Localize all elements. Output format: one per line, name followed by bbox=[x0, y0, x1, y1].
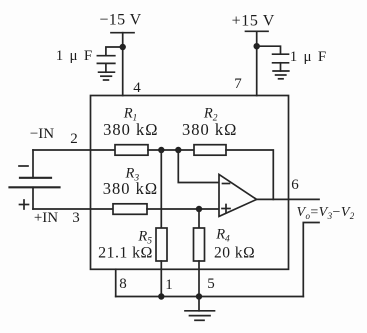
wire: Vo return elbow bbox=[303, 223, 319, 297]
svg-text:−15 V: −15 V bbox=[99, 12, 141, 29]
svg-text:3: 3 bbox=[72, 210, 80, 226]
source long plate bbox=[10, 186, 60, 188]
ground (right capacitor) bbox=[273, 70, 289, 72]
capacitor C1 1uF bbox=[97, 55, 114, 57]
capacitor C2 1uF bbox=[273, 53, 289, 55]
wire: node B down and to op-amp inverting input bbox=[178, 150, 219, 183]
wire: junction to C2 bbox=[257, 46, 281, 54]
svg-text:2: 2 bbox=[70, 131, 78, 147]
-15V supply terminal bar bbox=[111, 32, 134, 34]
node: +15V / C2 junction bbox=[254, 43, 260, 49]
resistor R3 bbox=[113, 204, 147, 215]
op-amp U1 bbox=[219, 174, 257, 216]
IC box bbox=[91, 96, 289, 270]
wire: C2 to ground bbox=[280, 63, 282, 71]
node: -15V / C1 junction bbox=[120, 44, 126, 50]
source: top lead bbox=[32, 150, 34, 178]
resistor R2 bbox=[194, 145, 226, 156]
wire: R5 to bottom rail (pin 1) bbox=[160, 261, 162, 297]
svg-text:1: 1 bbox=[165, 277, 173, 293]
svg-text:21.1 kΩ: 21.1 kΩ bbox=[98, 244, 153, 261]
svg-text:6: 6 bbox=[291, 177, 299, 193]
wire: op-amp output to pin 6 bbox=[257, 198, 319, 200]
wire: +15V down to pin 7 bbox=[256, 31, 258, 95]
svg-text:380 kΩ: 380 kΩ bbox=[182, 120, 237, 139]
wire: R4 to bottom rail (pin 5) bbox=[198, 261, 200, 297]
svg-text:−IN: −IN bbox=[30, 126, 54, 142]
source minus sign bbox=[19, 165, 28, 167]
svg-text:7: 7 bbox=[234, 76, 242, 92]
wire: C1 to ground bbox=[105, 63, 107, 72]
node B (R2 / inverting input junction) bbox=[175, 147, 181, 153]
svg-text:1 μ F: 1 μ F bbox=[56, 48, 92, 64]
resistor R4 bbox=[194, 228, 205, 261]
svg-text:380 kΩ: 380 kΩ bbox=[103, 120, 158, 139]
resistor R1 bbox=[115, 145, 148, 156]
svg-text:5: 5 bbox=[207, 276, 215, 292]
ground (main) bbox=[185, 310, 215, 312]
+15V supply terminal bar bbox=[246, 30, 269, 32]
svg-text:8: 8 bbox=[119, 276, 127, 292]
wire: R1 to R2 bbox=[148, 149, 194, 151]
svg-text:Vo=V3−V2: Vo=V3−V2 bbox=[297, 205, 355, 221]
svg-text:380 kΩ: 380 kΩ bbox=[103, 179, 158, 198]
ground (left capacitor) bbox=[99, 71, 115, 73]
svg-text:R4: R4 bbox=[215, 227, 230, 245]
wire: junction to C1 bbox=[106, 47, 123, 56]
wire: pin 8 stub bbox=[115, 269, 117, 296]
wire: bottom rail bbox=[116, 296, 304, 298]
wire: R2 to output (feedback) bbox=[226, 150, 273, 199]
node: +input / R4 junction bbox=[196, 206, 202, 212]
node A (R1/R5 junction) bbox=[158, 147, 164, 153]
svg-text:+15 V: +15 V bbox=[232, 13, 275, 30]
node: pin1 / rail bbox=[158, 293, 164, 299]
wire: +IN to R3 (pin 3) bbox=[33, 208, 113, 210]
svg-text:20 kΩ: 20 kΩ bbox=[214, 244, 255, 261]
svg-text:4: 4 bbox=[133, 80, 141, 96]
wire: ground stub bbox=[198, 297, 200, 311]
wire: -IN to R1 (pin 2) bbox=[33, 149, 115, 151]
source: bottom lead bbox=[32, 187, 34, 209]
wire: -15V down to pin 4 bbox=[122, 33, 124, 96]
svg-text:1 μ F: 1 μ F bbox=[290, 49, 326, 65]
source short plate bbox=[20, 177, 51, 179]
wire: node down to R4 bbox=[198, 209, 200, 228]
node: pin5 / ground bbox=[196, 293, 202, 299]
resistor R5 bbox=[156, 228, 167, 261]
wire: node A down to R5 bbox=[160, 150, 162, 228]
source plus sign bbox=[20, 204, 29, 206]
svg-text:+IN: +IN bbox=[34, 210, 58, 226]
wire: R3 to op-amp non-inverting input bbox=[147, 208, 219, 210]
